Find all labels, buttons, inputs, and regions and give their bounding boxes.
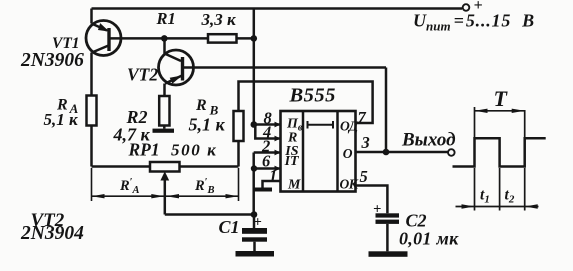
wire C1 bottom lead <box>253 242 256 251</box>
wire pin 2 lead <box>254 151 281 154</box>
svg-text:+: + <box>254 215 262 231</box>
svg-text:5,1 к: 5,1 к <box>44 110 79 129</box>
pin 8 input arrow <box>275 122 281 128</box>
dimension T arrows <box>475 109 525 113</box>
wire RB bottom to RP1 line <box>237 141 240 167</box>
svg-text:5: 5 <box>360 167 368 186</box>
wire pin 7 discharge loop to RB top <box>239 82 373 124</box>
wire pin 1 lead <box>263 181 281 188</box>
svg-text:3: 3 <box>361 133 370 152</box>
resistor RA body <box>87 96 97 126</box>
svg-text:0,01 мк: 0,01 мк <box>399 229 459 249</box>
potentiometer RP1 body <box>150 162 180 172</box>
svg-text:ОК: ОК <box>340 176 359 191</box>
capacitor C1 plates <box>242 228 267 242</box>
svg-text:+: + <box>474 0 483 14</box>
dimension extension lines RP1 <box>92 168 239 201</box>
ground C1 <box>236 251 275 257</box>
svg-text:ОД: ОД <box>340 119 359 134</box>
svg-text:2N3904: 2N3904 <box>20 223 84 244</box>
wire RP1 left lead <box>92 165 151 168</box>
IC internal divider left <box>302 111 305 192</box>
svg-text:+: + <box>373 202 381 218</box>
resistor R2 body <box>159 96 169 126</box>
node junction output / VT2 base feedback <box>383 149 390 156</box>
resistor RB body <box>234 111 244 141</box>
wire feedback vertical <box>385 68 388 153</box>
pin 6 input arrow <box>275 166 281 172</box>
ground pin 1 <box>253 188 272 192</box>
svg-text:2N3906: 2N3906 <box>20 50 84 71</box>
potentiometer RP1 wiper arrow <box>161 173 168 215</box>
wire C2 bottom lead <box>386 224 389 251</box>
transistor VT2 <box>159 38 194 96</box>
IC internal divider right <box>336 111 339 192</box>
wire RA bottom to RP1 line <box>90 126 93 167</box>
svg-text:R′A: R′A <box>119 177 140 196</box>
timer symbol inside IC <box>308 121 334 129</box>
wire pin 8 lead <box>254 123 281 126</box>
dimension t1 t2 arrows <box>462 204 538 208</box>
svg-text:R1: R1 <box>156 9 176 28</box>
node junction R1 / Vcc rail drop <box>251 35 258 42</box>
svg-text:t2: t2 <box>505 187 515 206</box>
IC U1 B555 box <box>281 111 356 192</box>
terminal +Upit circle <box>463 4 470 11</box>
svg-text:RP1: RP1 <box>128 140 160 160</box>
svg-text:5,1 к: 5,1 к <box>189 115 226 135</box>
wire VT1 base to R1 <box>111 37 209 40</box>
svg-text:t1: t1 <box>480 187 490 206</box>
dimension arrows R'A R'B <box>92 194 238 198</box>
svg-text:VT2: VT2 <box>127 65 158 85</box>
svg-text:500 к: 500 к <box>171 141 217 160</box>
wire VT1 collector to RA <box>90 53 93 96</box>
pin 2 input arrow <box>275 150 281 156</box>
wire pin 6 lead <box>254 167 281 170</box>
wire trigger net vertical pin2-pin6-C1 <box>252 153 255 215</box>
svg-text:1: 1 <box>269 166 277 185</box>
svg-text:IT: IT <box>284 154 300 169</box>
svg-text:C2: C2 <box>406 211 427 231</box>
svg-text:T: T <box>494 86 509 111</box>
ground R2 <box>153 129 175 133</box>
wire R1 right lead <box>237 37 254 40</box>
waveform output pulse <box>453 138 546 166</box>
svg-text:О: О <box>343 146 353 161</box>
wire top supply rail <box>92 7 463 10</box>
ground C2 <box>369 251 408 256</box>
svg-text:R′В: R′В <box>194 177 215 196</box>
wire pin 5 to C2 <box>356 186 388 214</box>
svg-text:М: М <box>287 177 301 192</box>
wire RP1 right lead <box>180 165 239 168</box>
svg-text:C1: C1 <box>219 217 240 237</box>
wire Vcc vertical drop to pin 8 <box>253 9 256 125</box>
resistor R1 3.3k body <box>208 34 237 42</box>
wire wiper to C1 node <box>165 213 254 216</box>
wire VT2 base to output column <box>184 66 386 69</box>
wire R2 bottom lead <box>163 126 166 129</box>
transistor VT1 <box>86 9 121 56</box>
wire pin 3 output lead <box>356 151 449 154</box>
wire C1 top lead <box>253 215 256 229</box>
svg-text:В555: В555 <box>289 85 336 107</box>
node junction pin 6 <box>251 165 257 171</box>
dimension T extension and line <box>475 107 525 138</box>
node junction wiper / C1 / trigger <box>251 211 258 218</box>
node junction VT1 base / VT2 collector <box>161 35 168 42</box>
svg-text:Выход: Выход <box>401 130 456 151</box>
wire pin 4 elbow <box>255 125 280 139</box>
terminal output circle <box>448 149 455 156</box>
pin 4 input arrow <box>275 136 281 142</box>
capacitor C2 plates <box>376 213 400 224</box>
node junction pin 8 <box>251 121 258 128</box>
svg-text:3,3 к: 3,3 к <box>201 10 237 29</box>
svg-text:7: 7 <box>358 108 367 127</box>
dimension t1 t2 extensions and line <box>456 168 539 211</box>
